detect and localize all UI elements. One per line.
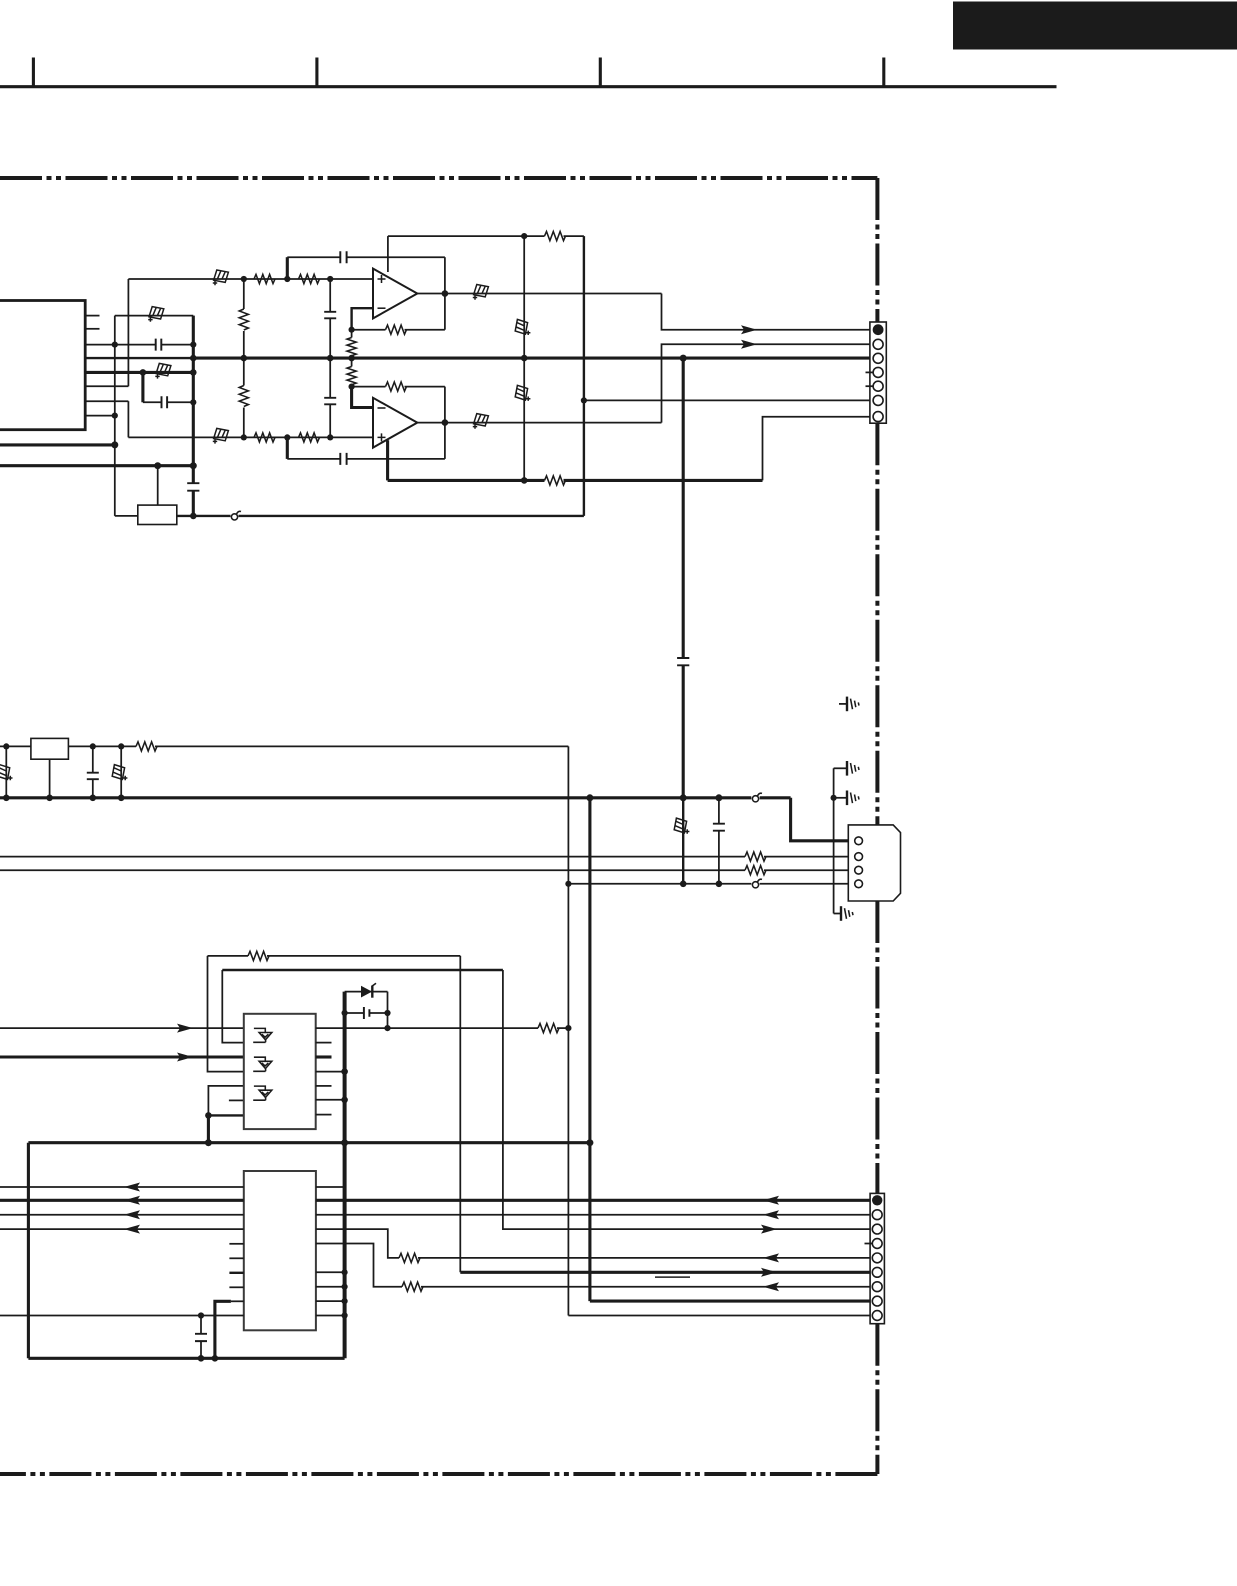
junction dot bbox=[284, 434, 290, 440]
loopback riser to CN2 pin3 bbox=[503, 970, 872, 1229]
IC2 left nc stub 3 bbox=[229, 1272, 243, 1274]
cap row y=402.3 bbox=[143, 401, 162, 403]
bias riser x=583.9 (to crystal row) bbox=[583, 236, 585, 516]
capacitor C (upper, horizontal plates) bbox=[324, 312, 336, 319]
tick 1 bbox=[32, 58, 35, 87]
junction dot bbox=[715, 794, 722, 801]
resistor R (L input 2) bbox=[299, 274, 320, 283]
IC2 left ground pin path bbox=[231, 1300, 244, 1302]
diode D (bus clamp) bbox=[345, 991, 388, 993]
capacitor C (top feedback) bbox=[340, 251, 346, 263]
board border bottom (chain line) bbox=[0, 1472, 877, 1476]
board border right segment 1 bbox=[875, 178, 879, 322]
ferrite bead FB (ground row) bbox=[752, 882, 758, 888]
junction dot bbox=[111, 441, 118, 448]
U1B supply stub bbox=[386, 440, 389, 480]
rail 2 dots bbox=[205, 1139, 212, 1146]
capacitor C (on x=193.3 vertical) bbox=[187, 483, 199, 491]
IC2 left row y=1214.7 with arrow bbox=[0, 1214, 244, 1216]
buffer left pin6 stub bbox=[229, 1099, 244, 1101]
resistor R (L input 1) bbox=[254, 274, 275, 283]
capacitor C (bottom feedback) bbox=[340, 453, 346, 465]
junction dot bbox=[341, 1068, 348, 1075]
loop row B y=970 bbox=[222, 969, 503, 971]
resistor R (U1A feedback) bbox=[386, 325, 407, 334]
thick row y=465.7 from page edge bbox=[0, 464, 193, 467]
wire crystal right row to riser bbox=[177, 515, 231, 517]
input row 1 y=1028.1 with arrow bbox=[0, 1027, 244, 1029]
board border right segment 3 bbox=[875, 901, 879, 1193]
junction dot bbox=[140, 369, 147, 376]
ferrite bead FB (on crystal row) bbox=[231, 514, 237, 520]
connector CN1 (7 pin) bbox=[870, 322, 886, 423]
wire x=157.7 to crystal bbox=[157, 466, 159, 505]
chassis ground (mid) bbox=[847, 791, 859, 806]
chassis ground stub (bottom) bbox=[834, 913, 841, 915]
top rule bbox=[0, 85, 1057, 88]
CN2 pin 9 bbox=[872, 1311, 882, 1321]
IC2 right stub to bus (1301.1) bbox=[316, 1300, 345, 1302]
ferrite bead FB (ground rail) bbox=[752, 796, 758, 802]
resistor R (U1B feedback) bbox=[386, 382, 407, 391]
junction dot bbox=[3, 795, 10, 802]
connector CN3 (4 pin, chamfered) bbox=[848, 825, 900, 901]
regulator ground lead bbox=[49, 759, 51, 798]
arrow (CN2 pin5, left) bbox=[763, 1253, 779, 1262]
resistor R (R input 2) bbox=[299, 433, 320, 442]
CN2 pin 6 bbox=[872, 1267, 882, 1277]
junction dot bbox=[342, 1298, 348, 1304]
resistor R (shunt upper, vertical) bbox=[238, 309, 250, 331]
buffer gate symbol 2 bbox=[253, 1057, 272, 1071]
resistor R (row 870.2) bbox=[745, 866, 766, 875]
arrow (CN2 pin3, right) bbox=[761, 1225, 777, 1234]
junction dot bbox=[349, 327, 355, 333]
capacitor C (x=201 to return) bbox=[200, 1316, 202, 1334]
capacitor C (rail bypass x=92.8) bbox=[92, 746, 94, 772]
U1B output riser x=444.9 bbox=[444, 387, 446, 459]
junction dot bbox=[384, 1025, 390, 1031]
CN1 pin 4 bbox=[873, 367, 883, 377]
electrolytic capacitor (U1B output coupling) bbox=[473, 414, 489, 429]
junction dot bbox=[190, 342, 196, 348]
junction dot bbox=[342, 1269, 348, 1275]
crystal X (resonator box) bbox=[138, 505, 177, 524]
U1A supply stub bbox=[387, 236, 389, 272]
buffer right stub pin (1042.6) bbox=[316, 1042, 332, 1044]
buffer output row y=1028.1 (right side) bbox=[316, 1027, 538, 1029]
thick stub to top cap row bbox=[286, 257, 289, 279]
junction dot bbox=[521, 233, 527, 239]
R-ch input row y=437.4 bbox=[128, 436, 373, 438]
junction dot bbox=[342, 1284, 348, 1290]
resistor R (pin7 row) bbox=[402, 1282, 423, 1291]
CN2 pin 5 bbox=[872, 1253, 882, 1263]
IC2 left row y=1187 with arrow bbox=[0, 1186, 244, 1188]
IC2 right stub to bus (1286.7) bbox=[316, 1286, 345, 1288]
wire vertical x=193.3 (thick) with series cap bbox=[192, 316, 195, 483]
board border top (chain line) bbox=[0, 176, 877, 180]
capacitor C (series on row 402.3) bbox=[162, 396, 168, 408]
electrolytic capacitor (R input) bbox=[213, 428, 229, 443]
capacitor C (series on drop) bbox=[677, 658, 689, 665]
buffer gate symbol 1 bbox=[253, 1028, 272, 1042]
buffer section dots bbox=[342, 1010, 348, 1016]
junction dot bbox=[90, 795, 97, 802]
junction dot bbox=[442, 419, 449, 426]
wire vertical x=142.9 (thick) bbox=[141, 372, 144, 402]
IC2 left row y=1200.3 (thick) with arrow bbox=[0, 1199, 244, 1202]
junction dot bbox=[680, 881, 687, 888]
feedback row U1A y=329.7 bbox=[352, 329, 386, 331]
arrow (R out) bbox=[741, 340, 757, 349]
resistor R (row 856.6) bbox=[745, 852, 766, 861]
thick riser row to CN2 pin8 bbox=[590, 1300, 872, 1303]
long riser x=568.4 (supply to lower blocks) bbox=[567, 746, 569, 1315]
junction dot bbox=[565, 1025, 571, 1031]
regulator IC (3-terminal) bbox=[31, 738, 69, 759]
R-out jog to connector pin2 bbox=[662, 344, 872, 422]
junction dot bbox=[190, 369, 197, 376]
junction dot bbox=[716, 881, 723, 888]
long drop x=683.2 with caps bbox=[682, 358, 685, 657]
electrolytic cap row (top of left aux block) bbox=[115, 315, 194, 317]
wire vertical x=128.4 (lower: pin7 to bottom filter input) bbox=[127, 401, 129, 437]
buffer right stub pin (1085.9) bbox=[316, 1085, 332, 1087]
loop row A y=955.9 bbox=[208, 955, 249, 957]
capacitor C (series on pin3 row) bbox=[156, 339, 162, 351]
feedback row U1B y=386.6 bbox=[352, 386, 386, 388]
junction dot bbox=[521, 355, 528, 362]
CN3 pin 3 bbox=[855, 866, 863, 874]
IC2 left nc stub 4 bbox=[229, 1286, 243, 1288]
wire vertical x=128.4 (upper: pin6 to top filter input) bbox=[127, 279, 129, 386]
board border right segment 4 bbox=[875, 1324, 879, 1474]
buffer left pin7 link (thick to rail) bbox=[208, 1114, 243, 1116]
connector CN2 (9 pin) bbox=[870, 1193, 884, 1323]
top feedback cap row y=257.2 bbox=[287, 256, 340, 258]
electrolytic capacitor (rail bypass x=6.3) bbox=[5, 746, 7, 797]
IC buffer (hex Schmitt) bbox=[244, 1014, 316, 1129]
arrow (input 2) bbox=[177, 1053, 193, 1062]
junction dot bbox=[442, 290, 449, 297]
IC1 pin 1 stub bbox=[85, 315, 99, 317]
electrolytic capacitor (row 315.6) bbox=[148, 307, 164, 322]
rail 2 bottom return y=1358.3 bbox=[28, 1357, 344, 1360]
signal name underline remnant bbox=[655, 1276, 690, 1278]
CN1 pin 7 bbox=[873, 412, 883, 422]
bypass column x=524.2 with electrolytics bbox=[523, 236, 525, 480]
electrolytic capacitor (lower bypass) bbox=[515, 385, 530, 401]
power bus x=344.6 (thick) bbox=[343, 992, 347, 1359]
thick link rail to CN3 pin1 bbox=[791, 798, 855, 841]
input row 2 y=1057 (thick) with arrow bbox=[0, 1055, 244, 1058]
junction dots left aux bbox=[112, 342, 118, 348]
IC2 right stub to bus (1187) bbox=[316, 1186, 345, 1188]
electrolytic capacitor (drop, lower) bbox=[682, 798, 684, 884]
arrow (L out) bbox=[741, 325, 757, 334]
chassis ground stub (mid) bbox=[834, 797, 847, 799]
CN1 pin 5 bbox=[873, 381, 883, 391]
buffer right pin to bus (1071.6) bbox=[316, 1071, 345, 1073]
IC1 pin 8 wire bbox=[85, 415, 115, 417]
mid-section dots bbox=[831, 795, 837, 801]
CN2 pin 2 bbox=[872, 1210, 882, 1220]
CN2 pin 4 bbox=[872, 1239, 882, 1249]
electrolytic capacitor (upper bypass) bbox=[515, 319, 530, 335]
chassis ground stub (top) bbox=[834, 767, 847, 769]
CN2 pin 1 (filled) bbox=[872, 1195, 882, 1205]
junction dot bbox=[581, 397, 587, 403]
CN2 pin 8 bbox=[872, 1296, 882, 1306]
junction dot bbox=[118, 795, 125, 802]
IC2 left row y=1229.1 with arrow bbox=[0, 1228, 244, 1230]
bottom feedback cap row y=458.9 bbox=[287, 458, 340, 460]
resistor R (pin5 row) bbox=[399, 1253, 420, 1262]
CN3 pin 2 bbox=[855, 853, 863, 861]
analog row 1 y=856.6 bbox=[0, 856, 745, 858]
chassis ground (top) bbox=[847, 761, 859, 776]
riser A left x=207.5 bbox=[208, 956, 244, 1072]
IC1 pin 3 wire bbox=[85, 344, 156, 346]
junction dot bbox=[90, 743, 96, 749]
resistor R (bottom bias) bbox=[545, 476, 566, 485]
CN1 pin 3 bbox=[873, 353, 883, 363]
junction dot bbox=[198, 1355, 205, 1362]
junction dot bbox=[46, 795, 53, 802]
buffer left pin5 link bbox=[208, 1086, 243, 1116]
IC1 pin 6 wire bbox=[85, 385, 128, 387]
junction dot bbox=[190, 355, 197, 362]
IC2 row to CN2 pin1 (thick) bbox=[316, 1199, 872, 1202]
CN1 pin 1 (filled) bbox=[873, 324, 884, 335]
junction dot bbox=[341, 1139, 348, 1146]
IC1 pin 7 wire bbox=[85, 400, 128, 402]
resistor R (loop row A) bbox=[248, 951, 269, 960]
junction dot bbox=[680, 794, 687, 801]
op-amp U1B bbox=[373, 398, 417, 448]
supply row y=746.4 bbox=[0, 745, 136, 747]
junction dot bbox=[284, 276, 290, 282]
junction dot bbox=[327, 434, 333, 440]
L-ch input row y=279 bbox=[128, 278, 373, 280]
ground rail y=797.8 (thick) bbox=[0, 796, 751, 799]
junction dot bbox=[190, 513, 197, 520]
IC2 left nc stub 1 bbox=[229, 1243, 243, 1245]
junction dot bbox=[112, 413, 118, 419]
buffer right pin to bus (1099.8) bbox=[316, 1099, 345, 1101]
junction dot bbox=[241, 355, 248, 362]
junction dot bbox=[349, 384, 355, 390]
buffer right stub pin thick (1057) bbox=[316, 1055, 332, 1058]
CN1 pin 2 bbox=[873, 339, 883, 349]
rail 2 left drop x=28.4 bbox=[27, 1143, 30, 1359]
cap branch x=330.2 (lower) bbox=[329, 358, 331, 397]
cap branch x=718.9 bbox=[718, 798, 720, 823]
junction dot bbox=[342, 1312, 348, 1318]
resistor R (row 1028.1) bbox=[538, 1023, 559, 1032]
board border right segment 2 bbox=[875, 423, 879, 825]
L-out jog to connector pin1 bbox=[662, 294, 872, 330]
electrolytic capacitor (on pin5 row) bbox=[155, 363, 171, 378]
IC2 row jog to CN2 pin5 bbox=[316, 1229, 399, 1258]
junction dot bbox=[348, 355, 355, 362]
wire vertical x=114.8 bbox=[114, 316, 116, 516]
tick 2 bbox=[315, 58, 318, 87]
capacitor C (parallel with diode) bbox=[345, 1012, 364, 1014]
buffer right stub pin (1114.6) bbox=[316, 1114, 332, 1116]
junction dot bbox=[521, 477, 528, 484]
junction dot bbox=[680, 355, 687, 362]
cap branch x=330.2 (upper) bbox=[329, 279, 331, 311]
CN1 pin 4 stub bbox=[866, 371, 873, 373]
IC1 pin 2 stub bbox=[85, 328, 99, 330]
IC2 right stub to bus (1272.3) bbox=[316, 1271, 345, 1273]
junction dot bbox=[341, 1097, 348, 1104]
pin6 row y=400.4 bbox=[584, 399, 871, 401]
junction dot bbox=[212, 1355, 219, 1362]
junction dot bbox=[241, 434, 247, 440]
CN1 pin 5 stub bbox=[866, 385, 873, 387]
tick 3 bbox=[599, 58, 602, 87]
inverting input network x=351.6 bbox=[352, 308, 373, 330]
CN2 pin 4 stub bbox=[865, 1243, 873, 1245]
resistor R (shunt lower, vertical) bbox=[238, 386, 250, 408]
CN3 pin 4 bbox=[855, 880, 863, 888]
CN1 pin 6 bbox=[873, 395, 883, 405]
resistor R (R input 1) bbox=[254, 433, 275, 442]
ground rail 2 y=1142.7 (thick) bbox=[28, 1141, 590, 1144]
shunt branch x=243.8 with resistors to rail bbox=[243, 279, 245, 437]
junction dot bbox=[118, 743, 124, 749]
IC2 (digital interface) bbox=[244, 1171, 316, 1330]
chassis ground (bottom) bbox=[841, 906, 853, 921]
capacitor C (lower, horizontal plates) bbox=[324, 398, 336, 405]
junction dot bbox=[586, 794, 593, 801]
wire crystal left bbox=[115, 515, 138, 517]
IC1 pin 5 wire (thick) bbox=[85, 371, 193, 374]
pin7 path bbox=[763, 417, 872, 481]
U1A output riser x=444.9 bbox=[444, 257, 446, 330]
riser B left x=222.3 bbox=[222, 970, 244, 1043]
junction dot bbox=[154, 462, 161, 469]
arrow (CN2 pin2, left) bbox=[763, 1210, 779, 1219]
electrolytic capacitor (U1A output coupling) bbox=[473, 285, 489, 300]
op-amp U1A bbox=[373, 269, 417, 319]
CN2 pin 3 bbox=[872, 1224, 882, 1234]
VREF rail y=358.1 (thick) bbox=[193, 357, 871, 360]
junction dot bbox=[586, 1139, 593, 1146]
arrow (CN2 pin7, left) bbox=[763, 1282, 779, 1291]
junction dot bbox=[384, 1010, 390, 1016]
resistor R (supply row) bbox=[136, 742, 157, 751]
arrow (CN2 pin6, right) bbox=[761, 1268, 777, 1277]
U1B output row y=422.6 bbox=[417, 422, 661, 424]
regulator section dots bbox=[3, 743, 9, 749]
long thick riser x=589.9 bbox=[588, 798, 591, 1301]
electrolytic capacitor (L input) bbox=[213, 270, 229, 285]
analog row 2 y=870.2 bbox=[0, 869, 745, 871]
IC2 right stub to bus (1315.5) bbox=[316, 1315, 345, 1317]
buffer gate symbol 3 bbox=[253, 1086, 272, 1100]
IC1 pin 4 wire (to VREF rail) bbox=[85, 357, 193, 359]
diode/cap right leg x=387.5 bbox=[387, 992, 389, 1029]
electrolytic capacitor (rail bypass x=121.2) bbox=[120, 746, 122, 797]
thick stub to bottom cap row bbox=[286, 437, 289, 459]
junction dot bbox=[565, 881, 571, 887]
resistor R (top bias) bbox=[545, 232, 566, 241]
ground bus x=833.6 bbox=[833, 768, 835, 913]
thick row y=444.9 from page edge bbox=[0, 443, 115, 446]
chassis ground stub (floating upper) bbox=[839, 703, 847, 705]
junction dot bbox=[327, 355, 334, 362]
junction dot bbox=[327, 276, 333, 282]
resistor R (vertical, upper fb divider) bbox=[347, 338, 356, 356]
filter junction dots bbox=[241, 276, 247, 282]
chassis ground (floating upper) bbox=[847, 697, 859, 712]
junction dot bbox=[190, 399, 196, 405]
tick 4 bbox=[882, 58, 885, 87]
junction dot bbox=[205, 1112, 212, 1119]
IC2 section dots bbox=[198, 1312, 204, 1318]
IC2 row to CN2 pin2 bbox=[316, 1214, 872, 1216]
U1A output row y=293.5 bbox=[417, 293, 661, 295]
CN2 pin 7 bbox=[872, 1282, 882, 1292]
loopback riser to CN2 pin6 (thick) bbox=[459, 956, 461, 1272]
CN3 pin 1 bbox=[855, 837, 863, 845]
ground row y=883.8 bbox=[568, 883, 751, 885]
IC2 row jog to CN2 pin7 bbox=[316, 1244, 402, 1287]
junction dot bbox=[190, 462, 197, 469]
arrow (CN2 pin1, left) bbox=[763, 1196, 779, 1205]
resistor R (vertical, lower fb divider) bbox=[347, 367, 356, 385]
riser row to CN2 pin9 bbox=[568, 1315, 871, 1317]
IC2 left nc stub 2 bbox=[229, 1257, 243, 1259]
capacitor C (x=718.9) bbox=[713, 824, 725, 831]
bottom bias row y=480.4 (thick) bbox=[388, 479, 545, 482]
IC1 DAC (box cut by page edge) bbox=[0, 301, 85, 430]
IC2 left row y=1315.5 bbox=[0, 1315, 244, 1317]
title block (black) bbox=[953, 2, 1237, 50]
top bias row y=236.1 bbox=[388, 235, 545, 237]
arrow (input 1) bbox=[177, 1024, 193, 1033]
